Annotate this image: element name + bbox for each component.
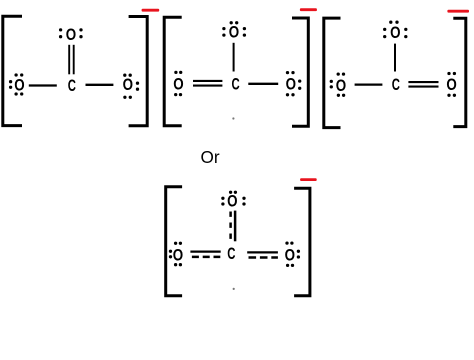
structure 1 top O left lone pair [59, 28, 62, 38]
structure 1 right O bottom lone pair [123, 96, 132, 99]
structure 4 left O top lone pair [174, 242, 182, 245]
structure 3 right O bottom lone pair [447, 94, 456, 97]
structure 1 left O-C single bond [29, 84, 57, 86]
svg-text:O: O [285, 247, 295, 265]
structure 2 minus charge [300, 8, 317, 11]
structure 4 right partial bond solid line [247, 251, 278, 253]
svg-text:O: O [286, 75, 296, 93]
structure 1 top O right lone pair [79, 28, 82, 38]
structure 4 top partial bond solid line [234, 211, 237, 242]
svg-text:O: O [390, 24, 400, 42]
structure 4 right O right lone pair [297, 250, 300, 259]
structure 4 minus charge [300, 178, 317, 181]
svg-text:O: O [173, 76, 183, 94]
structure 1 left O left lone pair [9, 80, 12, 89]
structure 3 left O-C single bond [355, 83, 383, 85]
structure 2 O=C double bond line 2 [193, 85, 222, 87]
svg-text:O: O [229, 24, 239, 42]
structure 1 C-O right single bond [86, 84, 114, 86]
structure 4 top O right lone pair [242, 197, 245, 206]
svg-text:O: O [173, 247, 183, 265]
svg-text:Or: Or [200, 147, 219, 167]
structure 3 left bracket [324, 18, 341, 128]
svg-text:C: C [232, 75, 240, 93]
svg-text:O: O [123, 76, 133, 94]
structure 4 left O bottom lone pair [174, 263, 182, 266]
structure 1 left O top lone pair [14, 73, 23, 76]
structure 2 right O right lone pair [298, 79, 301, 90]
structure 4 top O left lone pair [221, 197, 224, 206]
structure 2 top O top lone pair [230, 21, 239, 24]
structure 3 top O-C single bond [394, 44, 396, 72]
structure 4 right O bottom lone pair [286, 264, 294, 267]
structure 2 top O left lone pair [222, 27, 225, 37]
structure 1 left O bottom lone pair [14, 92, 23, 95]
structure 3 minus charge [447, 10, 469, 13]
structure 3 right O top lone pair [447, 72, 456, 75]
structure 4 right partial bond dashed line [249, 256, 278, 259]
structure 2 left O top lone pair [174, 71, 182, 74]
svg-text:O: O [446, 76, 456, 94]
svg-text:O: O [66, 26, 76, 44]
structure 4 left partial bond solid line [190, 250, 220, 252]
structure 2 right O bottom lone pair [286, 93, 295, 96]
svg-text:C: C [227, 245, 235, 263]
structure 1 right O top lone pair [123, 74, 132, 77]
structure 2 left bracket [164, 17, 182, 126]
structure 3 right bracket [453, 18, 466, 126]
structure 4 left partial bond dashed line [192, 256, 220, 259]
structure 4 left O left lone pair [169, 250, 172, 259]
structure 1 C=O double bond line 2 [73, 45, 75, 75]
structure 2 right O top lone pair [286, 71, 295, 74]
svg-text:C: C [68, 77, 76, 95]
structure 1 right O right lone pair [136, 82, 139, 91]
structure 4 left bracket [166, 187, 182, 296]
structure 3 C=O double bond line 2 [408, 86, 438, 88]
structure 1 C=O double bond line 1 [68, 45, 70, 75]
structure 3 top O left lone pair [383, 28, 386, 38]
structure 3 left O bottom lone pair [337, 94, 346, 97]
structure 3 C=O double bond line 1 [408, 81, 438, 83]
svg-text:O: O [336, 77, 346, 95]
stray speck below structure 4 [233, 288, 235, 290]
structure 2 top O-C single bond [233, 43, 235, 72]
structure 4 top partial bond dashed line [229, 212, 232, 242]
structure 2 C-O right single bond [248, 83, 278, 85]
structure 3 top O top lone pair [389, 21, 399, 24]
structure 3 left O left lone pair [330, 80, 333, 89]
structure 1 left bracket [3, 16, 22, 125]
structure 2 top O right lone pair [243, 27, 246, 37]
stray speck below structure 2 [232, 117, 234, 119]
structure 3 top O right lone pair [404, 28, 407, 38]
structure 3 left O top lone pair [337, 72, 346, 75]
structure 2 O=C double bond line 1 [193, 80, 222, 82]
structure 2 right bracket [292, 18, 308, 126]
structure 4 right O top lone pair [285, 241, 293, 244]
structure 4 top O top lone pair [229, 191, 237, 194]
svg-text:O: O [227, 192, 237, 210]
structure 4 right bracket [294, 188, 310, 295]
structure 2 left O bottom lone pair [174, 93, 182, 96]
svg-text:O: O [14, 77, 24, 95]
svg-text:C: C [392, 76, 400, 94]
structure 1 minus charge [142, 9, 160, 12]
structure 1 right bracket [129, 17, 148, 126]
